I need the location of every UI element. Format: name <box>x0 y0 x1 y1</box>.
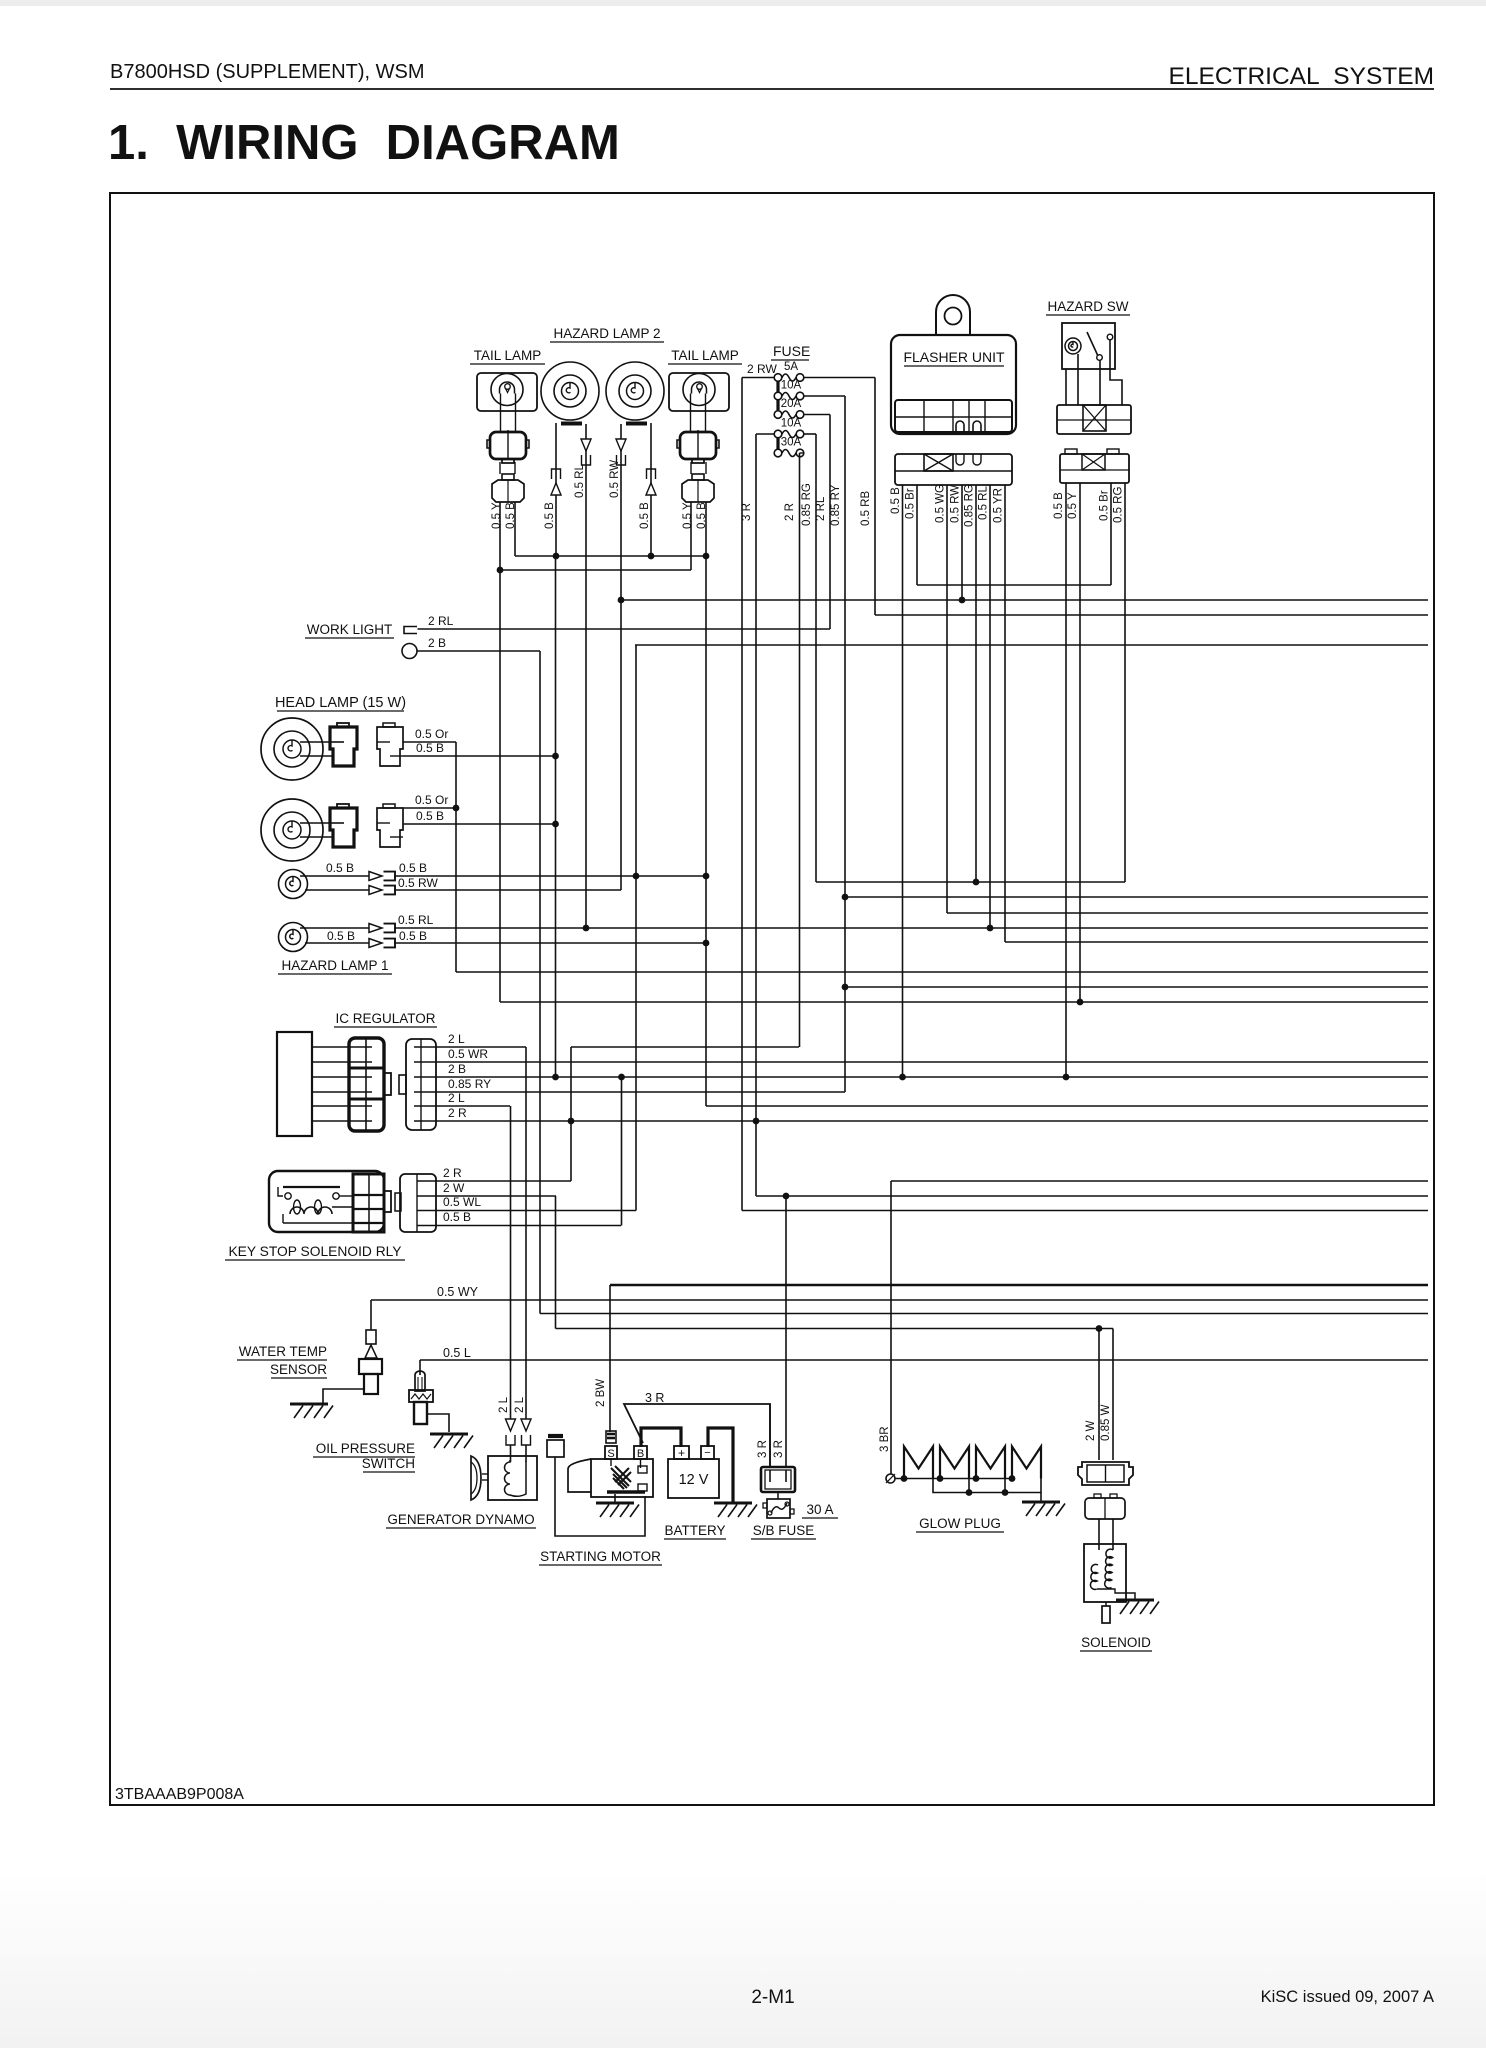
wire 2B ground bus run y=1077 <box>436 1076 1428 1078</box>
water temp sensor body <box>359 1359 382 1374</box>
key stop relay contact right <box>333 1193 339 1199</box>
wire 3BR glow plug down x=891 <box>890 1181 892 1474</box>
svg-text:3 R: 3 R <box>645 1391 664 1405</box>
wire 2W key stop relay pin y=1196 <box>436 1195 556 1197</box>
svg-text:0.5 WG: 0.5 WG <box>935 484 947 523</box>
wire 0.5RW front lamp left segment <box>305 889 369 891</box>
wire 0.5Y tail lamp net run y=1002 <box>500 1001 1428 1003</box>
wire 0.5Br flasher-hazard switch y=585 <box>917 584 1111 586</box>
svg-text:0.5 B: 0.5 B <box>399 861 427 875</box>
wire net to key-stop 0.5WL, horizontal run y=645 <box>635 644 1428 646</box>
solenoid connector 1 <box>1078 1462 1133 1485</box>
ground battery <box>714 1502 752 1505</box>
battery plus terminal <box>674 1446 689 1459</box>
svg-text:0.85 RY: 0.85 RY <box>448 1077 491 1091</box>
wire 0.5Or head lamp 2 <box>403 807 456 809</box>
IC regulator connector <box>349 1038 384 1131</box>
IC regulator pin line 4 <box>312 1091 350 1093</box>
svg-text:0.5 B: 0.5 B <box>327 929 355 943</box>
key stop solenoid relay body <box>269 1171 384 1232</box>
wire 2L generator riser x=526 <box>525 1047 527 1419</box>
wire 2W key stop to solenoid x=555 <box>555 1196 557 1329</box>
junction flasher 0.85RG on RG run <box>973 879 980 886</box>
connector pair hazard2 0.5RL <box>581 439 591 451</box>
IC regulator pin line 6 <box>312 1120 350 1122</box>
hazard switch contact <box>1097 355 1103 361</box>
svg-text:+: + <box>678 1446 685 1460</box>
IC regulator body <box>277 1032 312 1136</box>
junction 0.5B front lamp branch <box>633 873 640 880</box>
svg-text:TAIL LAMP: TAIL LAMP <box>671 348 739 363</box>
wire 3BR glow plug feed y=1181 <box>891 1180 1428 1182</box>
oil pressure switch terminal <box>415 1371 425 1391</box>
wire 0.5WR regulator run y=1062 <box>436 1061 1428 1063</box>
starting motor S terminal connector <box>606 1431 616 1443</box>
key stop relay harness connector <box>400 1174 436 1232</box>
svg-text:2 RL: 2 RL <box>428 614 454 628</box>
svg-text:0.5 WY: 0.5 WY <box>437 1285 479 1299</box>
water temp sensor ground lead <box>323 1389 364 1403</box>
wire 0.5WY water temp sensor y=1300 <box>371 1299 1428 1301</box>
wire 0.5B left tail lamp down x=515 <box>514 502 516 556</box>
IC regulator connector tab <box>384 1073 391 1095</box>
connector pair front lamp 0.5RW <box>369 886 382 895</box>
IC regulator pin line 1 <box>312 1046 350 1048</box>
junction head lamp 2 0.5Or <box>453 805 460 812</box>
solenoid coil left <box>1090 1564 1098 1589</box>
svg-text:0.5 Or: 0.5 Or <box>415 793 448 807</box>
IC regulator pin line 2 <box>312 1061 350 1063</box>
wire 0.5B tail lamp ground run y=1106 <box>706 1105 1428 1107</box>
wire 10A fuse to 0.85RG <box>804 433 816 435</box>
wire 0.5Br flasher pin x=917 <box>916 485 918 585</box>
connector pair generator 2L right <box>521 1419 531 1431</box>
svg-text:20A: 20A <box>781 398 802 410</box>
key stop relay tab <box>384 1191 391 1212</box>
hazard lamp 1 symbol <box>279 923 308 952</box>
hazard lamp 2 right base bar <box>626 422 647 426</box>
wire 20A fuse to 2RL <box>804 414 830 416</box>
hazard switch lever <box>1087 332 1098 356</box>
starting motor B terminal <box>634 1446 647 1459</box>
junction 0.85RY branch y=987 <box>842 984 849 991</box>
wire 0.5RW front lamp run <box>394 889 621 891</box>
generator dynamo coil <box>505 1460 527 1496</box>
svg-text:0.5 B: 0.5 B <box>1053 492 1065 519</box>
junction hazard lamp 2 right 0.5B on ground bus <box>648 553 655 560</box>
svg-text:0.5 B: 0.5 B <box>416 741 444 755</box>
svg-text:0.5 B: 0.5 B <box>326 861 354 875</box>
slow blow fusible link <box>767 1499 790 1518</box>
tail lamp right bulb leads <box>690 394 692 433</box>
svg-text:2 W: 2 W <box>443 1181 465 1195</box>
ground solenoid <box>1116 1599 1154 1602</box>
wire 0.5B key stop branch x=621 <box>621 1077 623 1226</box>
glow plug lower bus <box>933 1479 1041 1493</box>
wire 2L regulator pin run y=1047 <box>436 1046 526 1048</box>
head lamp 1 symbol <box>261 718 323 780</box>
oil pressure switch body <box>409 1390 433 1402</box>
wire 0.5WL key stop relay pin y=1210 <box>436 1210 636 1212</box>
wire 2L generator riser x=510 <box>510 1106 512 1419</box>
junction glow plug element 1 <box>901 1475 908 1482</box>
svg-text:3TBAAAB9P008A: 3TBAAAB9P008A <box>115 1786 244 1803</box>
svg-text:0.5 RW: 0.5 RW <box>609 460 621 498</box>
tail lamp right socket connector <box>680 432 716 459</box>
glow plug elements <box>904 1447 933 1479</box>
fuse bus bar 10A-30A <box>776 438 779 449</box>
fuse 5A at y=377.5 <box>774 374 782 382</box>
hazard switch wire drop 2 <box>1077 354 1079 405</box>
svg-text:0.5 WL: 0.5 WL <box>443 1195 481 1209</box>
junction hazard lamp 1 0.5B on tail riser <box>703 940 710 947</box>
wire 0.5RL hazard lamp 2 x=586 <box>585 424 587 928</box>
svg-text:STARTING MOTOR: STARTING MOTOR <box>540 1549 661 1564</box>
solenoid coil right <box>1105 1549 1113 1588</box>
wire 0.5B riser bus to regulator 2B x=555 <box>555 556 557 1077</box>
junction slow blow fuse pin on 3R run <box>783 1193 790 1200</box>
wire 0.5Y hazard switch pin x=1080 <box>1079 483 1081 1002</box>
wire 2R regulator run y=1121 <box>436 1120 1428 1122</box>
svg-text:0.5 RG: 0.5 RG <box>1113 487 1125 523</box>
glow plug top bus <box>895 1478 1012 1480</box>
svg-text:2 RL: 2 RL <box>815 496 827 521</box>
svg-text:0.5 Y: 0.5 Y <box>682 502 694 529</box>
wire 0.5WG run y=913 <box>947 912 1428 914</box>
wire 0.5B right tail lamp riser x=706 <box>705 502 707 1106</box>
junction right tail lamp 0.5B on ground bus <box>703 553 710 560</box>
wire 3R slow blow fuse feed y=1196 <box>756 1195 1428 1197</box>
wire 0.5B front lamp run <box>394 875 706 877</box>
hazard switch connector <box>1057 405 1131 434</box>
key stop relay connector section <box>353 1174 384 1232</box>
wire 0.5YR flasher run y=942 <box>1005 941 1428 943</box>
front clearance lamp symbol <box>279 870 308 899</box>
svg-text:0.5 Y: 0.5 Y <box>1067 492 1079 519</box>
oil pressure switch ground lead <box>427 1414 449 1432</box>
connector pair hazard2 left 0.5B <box>552 469 561 479</box>
flasher unit case <box>891 335 1016 434</box>
hazard lamp 2 right bulb <box>606 362 664 420</box>
hazard switch harness connector <box>1060 454 1129 483</box>
wire 2BW starting motor feed y=1285 <box>610 1284 1428 1287</box>
junction 0.5RW branch at y=600 <box>618 597 625 604</box>
flasher unit mounting hole <box>945 308 962 325</box>
wire 0.5Or head lamp 1 <box>403 741 456 743</box>
work light ground eyelet <box>402 644 417 659</box>
wire 0.5WL branch x=636 <box>635 645 637 1211</box>
svg-text:3 BR: 3 BR <box>879 1426 891 1452</box>
svg-text:B7800HSD (SUPPLEMENT), WSM: B7800HSD (SUPPLEMENT), WSM <box>110 61 425 83</box>
wire 0.85RG flasher pin x=976 <box>975 485 977 882</box>
wire 2L second regulator pin y=1106 <box>436 1105 510 1107</box>
svg-text:ELECTRICAL SYSTEM: ELECTRICAL SYSTEM <box>1169 63 1434 90</box>
wire 3R to 10A fuse <box>756 433 774 435</box>
wire 2RL from 20A fuse x=830 <box>829 415 831 630</box>
junction flasher 0.5RL on RL run <box>987 925 994 932</box>
fuse 10A at y=434 <box>774 430 782 438</box>
wire 0.85RY second branch y=987 <box>845 986 1428 988</box>
wire 0.5B head lamp 2 <box>403 823 556 825</box>
flasher unit body <box>936 295 970 335</box>
wire 2RW run y=1210 <box>742 1210 1428 1212</box>
hazard switch wire drop 1 <box>1065 369 1067 405</box>
wire 2BW down to starting motor x=610 <box>609 1285 611 1432</box>
svg-text:2 RW: 2 RW <box>747 362 777 376</box>
svg-text:KiSC issued 09, 2007 A: KiSC issued 09, 2007 A <box>1261 1988 1434 2006</box>
battery negative cable <box>708 1428 733 1503</box>
water temp sensor arrow terminal <box>365 1345 377 1358</box>
wire 30A fuse drop <box>800 452 805 454</box>
wire 0.5RL hazard lamp run y=928 <box>394 927 1428 929</box>
svg-text:0.5 Br: 0.5 Br <box>1099 490 1111 521</box>
wire 2R fuse feed run y=1047 <box>571 1046 799 1048</box>
wire 10A fuse to 0.85RY <box>804 395 845 397</box>
wire 2R riser x=571 <box>570 1047 572 1181</box>
junction glow plug element 4 <box>1009 1475 1016 1482</box>
svg-text:HEAD LAMP (15 W): HEAD LAMP (15 W) <box>275 695 406 711</box>
svg-text:HAZARD LAMP 2: HAZARD LAMP 2 <box>553 326 660 341</box>
wire generator 2L right tail <box>525 1445 527 1462</box>
tail lamp left socket connector <box>490 432 526 459</box>
svg-text:0.5 WR: 0.5 WR <box>448 1047 488 1061</box>
svg-text:0.5 B: 0.5 B <box>443 1210 471 1224</box>
battery positive cable <box>641 1428 681 1447</box>
fuse bus bar 10A-20A <box>776 400 779 410</box>
wire 0.5RG hazard switch pin x=1125 <box>1124 483 1126 882</box>
wire 0.5RL flasher pin x=990 <box>989 485 991 928</box>
work light connector stub <box>404 627 417 634</box>
junction hazard switch 0.5Y on Y run <box>1077 999 1084 1006</box>
junction left tail lamp 0.5Y on lighting bus <box>497 567 504 574</box>
junction 0.5B riser on 2B run <box>552 1074 559 1081</box>
starting motor base bar <box>607 1490 645 1493</box>
wire 0.85RY from 10A fuse x=845 <box>844 396 846 1092</box>
svg-text:0.5 Y: 0.5 Y <box>491 502 503 529</box>
ground glow plug <box>1022 1501 1060 1504</box>
solenoid ground lead <box>1126 1593 1135 1600</box>
ground oil pressure switch <box>430 1433 468 1436</box>
junction solenoid 2W pin on W run <box>1096 1325 1103 1332</box>
wire 0.5B front lamp left segment <box>300 875 369 877</box>
svg-text:2 BW: 2 BW <box>595 1379 607 1407</box>
svg-text:30A: 30A <box>781 437 802 449</box>
wire 0.5RB net, horizontal run y=615 <box>875 614 1428 616</box>
tail lamp left symbol <box>477 373 537 411</box>
starting motor bell housing <box>568 1459 591 1492</box>
svg-text:TAIL LAMP: TAIL LAMP <box>474 348 542 363</box>
junction 2R riser on regulator 2R run <box>568 1118 575 1125</box>
wire 2RL work light feed y=629 <box>418 628 831 630</box>
svg-text:12 V: 12 V <box>679 1472 709 1488</box>
fuse 20A at y=414.5 <box>774 411 782 419</box>
wire 0.85RY regulator pin y=1092 <box>436 1091 845 1093</box>
svg-text:0.5 B: 0.5 B <box>416 809 444 823</box>
svg-text:2 R: 2 R <box>443 1166 462 1180</box>
svg-text:0.5 B: 0.5 B <box>696 502 708 529</box>
wire 0.5L oil switch drop x=420 <box>419 1360 421 1375</box>
hazard switch wire drop 4 <box>1110 340 1122 405</box>
svg-text:0.5 B: 0.5 B <box>399 929 427 943</box>
junction flasher 0.5B on 2B run <box>899 1074 906 1081</box>
svg-text:0.85 RG: 0.85 RG <box>801 483 813 526</box>
svg-text:30 A: 30 A <box>806 1502 833 1517</box>
svg-text:−: − <box>704 1447 710 1459</box>
svg-text:0.5 RW: 0.5 RW <box>398 876 438 890</box>
wire 0.5YR flasher pin x=1005 <box>1004 485 1006 942</box>
connector pair hazard lamp 1 0.5RL <box>369 924 382 933</box>
wire 0.5RW hazard lamp 2 x=621 <box>620 424 622 890</box>
generator dynamo pulley <box>471 1456 481 1500</box>
svg-text:0.5 B: 0.5 B <box>890 487 902 514</box>
flasher unit connector section <box>895 400 1012 432</box>
junction head lamp 1 0.5B <box>552 753 559 760</box>
svg-text:3 R: 3 R <box>741 503 753 521</box>
key stop relay contact left <box>285 1193 291 1199</box>
svg-text:0.85 RG: 0.85 RG <box>964 484 976 527</box>
junction hazard lamp 2 left 0.5B on ground bus <box>553 553 560 560</box>
solenoid harness connector <box>1085 1498 1125 1519</box>
water temp sensor connector <box>366 1330 376 1344</box>
svg-text:IC REGULATOR: IC REGULATOR <box>335 1011 435 1026</box>
connector pair hazard lamp 1 0.5B <box>369 939 382 948</box>
junction 3R branch on 2R run <box>753 1118 760 1125</box>
svg-text:1. WIRING DIAGRAM: 1. WIRING DIAGRAM <box>108 116 620 170</box>
svg-text:OIL PRESSURE: OIL PRESSURE <box>316 1441 415 1456</box>
flasher harness connector <box>895 454 1012 485</box>
head lamp 2 symbol <box>261 799 323 861</box>
junction glow plug lower bus 1 <box>966 1489 973 1496</box>
junction glow plug element 3 <box>973 1475 980 1482</box>
connector pair hazard2 right 0.5B <box>647 469 656 479</box>
hazard lamp 2 left bulb <box>541 362 599 420</box>
tail lamp left bulb leads <box>500 394 502 433</box>
svg-text:WORK LIGHT: WORK LIGHT <box>307 622 393 637</box>
key stop relay contact bar <box>283 1186 340 1188</box>
wire 2W solenoid pin x=1099 <box>1098 1329 1100 1461</box>
junction flasher 0.5RW at y=600 <box>959 597 966 604</box>
fuse 10A at y=396 <box>774 392 782 400</box>
wire 0.5Y right tail lamp x=691 <box>690 502 692 570</box>
wire 2R key stop relay pin y=1181 <box>436 1180 571 1182</box>
svg-text:2 R: 2 R <box>784 503 796 521</box>
wire 0.85RG run y=882 <box>816 881 1125 883</box>
wire 0.85RG from 10A fuse x=816 <box>815 434 817 882</box>
wire 0.5WY water temp sensor drop x=371 <box>370 1300 372 1330</box>
svg-text:10A: 10A <box>781 418 802 430</box>
tail lamp right harness connector <box>692 474 704 480</box>
svg-text:WATER TEMP: WATER TEMP <box>239 1344 327 1359</box>
connector pair front lamp 0.5B <box>369 872 382 881</box>
wire 0.85W solenoid pin x=1113 <box>1112 1329 1114 1461</box>
battery minus terminal <box>701 1446 714 1459</box>
svg-text:5A: 5A <box>784 361 798 373</box>
svg-text:0.5 RL: 0.5 RL <box>978 486 990 520</box>
ground starting motor <box>596 1502 634 1505</box>
wire 0.5WG flasher pin x=947 <box>946 485 948 913</box>
wire 5A fuse to 0.5RB <box>804 377 875 379</box>
svg-text:HAZARD LAMP 1: HAZARD LAMP 1 <box>281 958 388 973</box>
svg-text:0.5 B: 0.5 B <box>544 502 556 529</box>
wire 3R slow blow fuse left pin x=770 <box>769 1404 771 1468</box>
wire 0.5B flasher pin x=902 <box>902 485 904 1077</box>
svg-text:SENSOR: SENSOR <box>270 1362 327 1377</box>
svg-text:0.85 RY: 0.85 RY <box>830 484 842 526</box>
hazard switch wire drop 3 <box>1099 360 1101 405</box>
svg-text:2 L: 2 L <box>448 1091 465 1105</box>
wire 2RW to 5A fuse <box>742 377 774 379</box>
svg-text:2 W: 2 W <box>1085 1420 1097 1441</box>
diagram border frame <box>110 193 1434 1805</box>
svg-text:2 R: 2 R <box>448 1106 467 1120</box>
svg-text:GENERATOR DYNAMO: GENERATOR DYNAMO <box>387 1512 534 1527</box>
starting motor auxiliary connector <box>547 1440 564 1457</box>
header rule <box>110 88 1434 90</box>
svg-text:0.5 Or: 0.5 Or <box>415 727 448 741</box>
svg-text:S/B FUSE: S/B FUSE <box>753 1523 815 1538</box>
wire 0.5B hazard lamp 1 left segment <box>305 942 369 944</box>
svg-text:SWITCH: SWITCH <box>362 1456 415 1471</box>
junction 0.5B front lamp to tail riser <box>703 873 710 880</box>
starting motor loop wire <box>555 1457 645 1536</box>
svg-text:0.85 W: 0.85 W <box>1100 1404 1112 1441</box>
svg-text:3 R: 3 R <box>757 1440 769 1458</box>
junction head lamp 2 0.5B <box>552 821 559 828</box>
svg-text:GLOW PLUG: GLOW PLUG <box>919 1516 1001 1531</box>
wire 0.5B hazard lamp 1 run y=943 <box>394 942 706 944</box>
wire 0.5L oil pressure switch y=1360 <box>420 1359 1428 1361</box>
wire 0.5B hazard lamp 2 left x=556 <box>555 423 557 556</box>
IC regulator harness connector <box>406 1039 436 1130</box>
svg-text:SOLENOID: SOLENOID <box>1081 1635 1151 1650</box>
hazard switch terminal <box>1107 334 1113 340</box>
battery body <box>668 1459 719 1498</box>
svg-text:0.5 B: 0.5 B <box>505 502 517 529</box>
svg-text:0.5 Br: 0.5 Br <box>905 488 917 519</box>
hazard lamp 2 left base bar <box>561 422 582 426</box>
starting motor ground stem <box>614 1494 616 1503</box>
connector pair hazard2 0.5RW <box>616 439 626 451</box>
wire 0.5B ground bus y=556 <box>515 555 706 557</box>
tail lamp left harness connector <box>502 474 514 480</box>
ground water temp sensor <box>290 1403 328 1406</box>
fuse bus bar 5A-10A <box>776 381 779 392</box>
junction glow plug lower bus 2 <box>1002 1489 1009 1496</box>
hazard switch lamp <box>1065 338 1081 354</box>
wire 0.5Y left tail lamp down x=500 <box>499 502 501 1002</box>
tail lamp right symbol <box>669 373 729 411</box>
wire 0.5B head lamp 1 <box>403 755 556 757</box>
svg-text:2-M1: 2-M1 <box>751 1987 794 2008</box>
starting motor armature <box>611 1466 631 1489</box>
wire 2RW / 3R fuse feed x=742 <box>741 378 743 1211</box>
wire generator 2L left tail <box>510 1445 512 1462</box>
generator dynamo body <box>488 1456 537 1500</box>
wire 0.85RY branch run y=897 <box>845 896 1428 898</box>
junction key stop 0.5B branch on 2B run <box>618 1074 625 1081</box>
svg-text:0.5 YR: 0.5 YR <box>993 488 1005 523</box>
wire 0.5Br hazard switch pin x=1111 <box>1110 483 1112 585</box>
svg-text:0.5 L: 0.5 L <box>443 1346 471 1360</box>
svg-text:10A: 10A <box>781 380 802 392</box>
wire 3R slow blow fuse right pin x=786 <box>785 1196 787 1468</box>
wire 0.5Or head lamp riser x=456 <box>455 742 457 972</box>
junction 0.85RY branch y=897 <box>842 894 849 901</box>
junction glow plug element 2 <box>937 1475 944 1482</box>
slow blow fuse box <box>761 1467 795 1492</box>
IC regulator pin line 5 <box>312 1105 350 1107</box>
connector pair generator 2L left <box>506 1419 516 1431</box>
